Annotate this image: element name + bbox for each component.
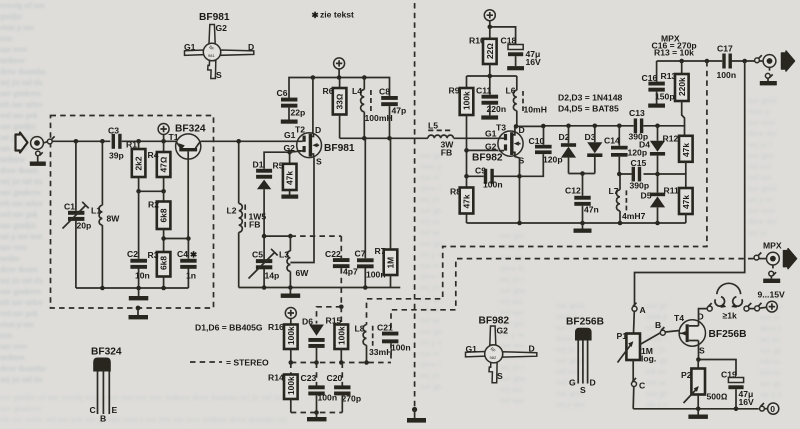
resistor R13 220k	[661, 61, 689, 126]
contact: MPX bottom contact	[754, 253, 767, 261]
capacitor C9 100n	[464, 166, 519, 190]
svg-text:47n: 47n	[584, 205, 599, 215]
svg-text:G1: G1	[284, 130, 296, 140]
ground: R5 ground	[281, 195, 298, 199]
svg-text:L2: L2	[227, 206, 237, 216]
svg-text:C15: C15	[631, 158, 647, 168]
wire: link R1-R4 bottoms	[136, 189, 166, 194]
wire: main line T1 to T2	[201, 140, 297, 142]
capacitor C18 47u electrolytic	[501, 36, 542, 68]
capacitor C20 270p	[327, 363, 362, 413]
svg-text:270p: 270p	[342, 394, 362, 404]
node: junction R6 plus on rail	[337, 75, 342, 80]
svg-text:C22: C22	[325, 249, 341, 259]
svg-text:100n: 100n	[717, 70, 737, 80]
wire: main input line	[43, 141, 176, 143]
wire: T3 drain junction to C10	[514, 124, 544, 145]
svg-text:A: A	[640, 305, 646, 315]
svg-text:FB: FB	[441, 148, 452, 158]
svg-text:R1: R1	[126, 140, 137, 150]
svg-text:C: C	[90, 405, 96, 415]
wire: mixer output line R6 L4 C8 to L5	[340, 136, 498, 141]
wire: T4 drain to headphone contact	[699, 303, 713, 326]
svg-text:47k: 47k	[285, 171, 295, 185]
svg-text:8W: 8W	[107, 214, 121, 224]
svg-text:log.: log.	[641, 354, 656, 364]
diode D6 varicap	[302, 317, 325, 363]
svg-text:C5: C5	[252, 250, 263, 260]
resistor R16 100k	[268, 322, 298, 363]
transistor package BF256B (bottom)	[566, 317, 604, 396]
capacitor C8 47p	[379, 87, 406, 139]
node: junction L4 on rail	[362, 75, 367, 80]
svg-text:150p: 150p	[655, 92, 675, 102]
svg-text:2k2: 2k2	[134, 156, 144, 170]
text: D1 D6 BB405G legend	[195, 323, 263, 333]
supply: plus circle T3 stage	[484, 10, 495, 27]
svg-text:100k: 100k	[286, 376, 296, 395]
svg-text:47k: 47k	[681, 195, 691, 209]
capacitor C16 150p	[642, 61, 675, 104]
svg-text:100n: 100n	[391, 343, 411, 353]
wire: T4 source to P2 C19	[696, 341, 736, 376]
svg-text:D: D	[248, 42, 254, 52]
capacitor C2 10n	[127, 191, 150, 288]
svg-text:C20: C20	[327, 373, 343, 383]
ground: IF rail ground	[574, 223, 592, 233]
svg-text:D: D	[590, 378, 596, 388]
svg-text:BF981: BF981	[324, 143, 355, 154]
svg-text:D2,D3 = 1N4148: D2,D3 = 1N4148	[558, 93, 622, 103]
svg-text:16V: 16V	[526, 57, 542, 67]
svg-text:L7: L7	[609, 186, 619, 196]
svg-text:C17: C17	[717, 44, 733, 54]
wire: MPX output line	[657, 59, 755, 64]
capacitor C21 100n (dashed)	[377, 323, 411, 363]
contact: C bottom contact	[632, 378, 646, 409]
svg-text:C2: C2	[127, 249, 138, 259]
svg-text:✱: ✱	[190, 250, 198, 260]
svg-text:L4: L4	[352, 86, 362, 96]
wire: D2 D3 bottom link to C12	[569, 171, 595, 176]
connector: 0V output circle	[768, 403, 779, 414]
svg-text:L3: L3	[279, 250, 289, 260]
svg-text:BF256B: BF256B	[709, 329, 747, 340]
connector: MPX bottom socket	[763, 241, 782, 266]
supply: plus circle stereo section	[285, 308, 296, 325]
inductor L4 100mH	[352, 78, 393, 139]
resistor R15 100k	[326, 307, 349, 363]
svg-text:R12: R12	[663, 134, 679, 144]
svg-text:0: 0	[770, 404, 775, 414]
resistor R2 6k8	[148, 191, 170, 238]
connector: MPX top output socket	[763, 55, 776, 68]
transistor T2 BF981 dual-gate MOSFET	[284, 125, 355, 167]
node: junction R1	[136, 139, 141, 144]
transistor T1 BF324	[169, 124, 206, 239]
svg-text:FB: FB	[249, 220, 260, 230]
headphone symbol with >=1k label	[715, 283, 742, 320]
wire: link R2-base T1	[161, 236, 190, 241]
node: junction T2 drain on rail	[311, 75, 316, 80]
transistor T3 BF982 dual-gate MOSFET	[472, 123, 525, 166]
wire: stereo dashed bus lower	[291, 410, 343, 415]
ground: shield box ground (dot and bar below box)	[129, 306, 149, 320]
wire: long vertical dashed separation line	[414, 3, 416, 409]
svg-text:C13: C13	[629, 108, 645, 118]
wire: audio ground rail	[633, 407, 759, 412]
capacitor C23 100n	[301, 363, 338, 413]
svg-text:R4: R4	[148, 150, 159, 160]
resistor R3 6k8	[148, 239, 171, 289]
potentiometer P1 1M log	[617, 331, 657, 381]
svg-text:R14: R14	[268, 373, 284, 383]
svg-text:C11: C11	[476, 86, 492, 96]
capacitor C12 47n	[565, 174, 599, 224]
svg-text:982: 982	[490, 355, 497, 360]
svg-text:220k: 220k	[677, 77, 687, 96]
capacitor C1 20p variable	[63, 141, 92, 288]
wire: left dashed shield box	[51, 116, 214, 309]
svg-text:D1,D6 = BB405G: D1,D6 = BB405G	[195, 323, 263, 333]
connector: antenna input socket	[31, 137, 44, 150]
diode D5	[641, 174, 666, 223]
svg-text:B: B	[100, 414, 106, 424]
transistor package BF324 (bottom left)	[90, 347, 122, 424]
text: D4 D5 BAT85 note	[558, 104, 619, 114]
svg-text:47k: 47k	[462, 194, 472, 208]
ground: C16 ground	[648, 104, 665, 108]
svg-text:R3: R3	[148, 250, 159, 260]
svg-text:G2: G2	[216, 23, 228, 33]
text: D2 D3 1N4148 note	[558, 93, 622, 103]
svg-text:C1: C1	[64, 202, 75, 212]
svg-text:100mH: 100mH	[365, 113, 393, 123]
resistor R8 47k	[450, 176, 473, 223]
inductor L1 8W	[91, 141, 120, 288]
node: junction R4 / supply	[161, 139, 166, 144]
wire: stereo dashed bus upper	[289, 360, 392, 365]
svg-text:R13 = 10k: R13 = 10k	[654, 48, 694, 58]
supply: plus circle above R4	[158, 124, 169, 142]
wire: T3 G2 R9 junction down to C9	[464, 148, 498, 176]
svg-text:R6: R6	[323, 86, 334, 96]
svg-text:R11: R11	[664, 186, 680, 196]
contact: MPX out contact	[755, 55, 764, 63]
inductor L5 3W ferrite bead	[428, 121, 454, 158]
svg-text:39p: 39p	[109, 151, 124, 161]
wire: R10 C18 top link	[488, 25, 516, 45]
wire: IF ground rail	[467, 221, 686, 226]
capacitor C6 22p	[277, 88, 306, 120]
ground: C18 ground	[507, 66, 524, 70]
svg-text:T2: T2	[295, 125, 305, 135]
svg-text:C21: C21	[377, 323, 393, 333]
wire: oscillator tank top line	[262, 234, 293, 239]
contact: B wiper contact	[640, 320, 680, 345]
contact: input contact on box edge	[47, 136, 54, 144]
wire: T2 G2 line to D1	[264, 150, 303, 169]
wire: left block ground rail	[76, 286, 188, 291]
wire: dashed branch to D6	[317, 305, 344, 324]
svg-text:981: 981	[208, 53, 215, 58]
text: zie tekst note	[312, 10, 355, 21]
capacitor C11 220n	[476, 76, 506, 115]
wire: headphone to supply contacts	[744, 303, 767, 311]
capacitor C15 390p	[630, 158, 650, 191]
output arrow bottom MPX	[784, 249, 797, 269]
svg-text:500Ω: 500Ω	[707, 392, 728, 402]
wire: T2 drain top rail	[289, 78, 390, 99]
svg-text:47Ω: 47Ω	[159, 156, 169, 172]
ground: connector ground with break contact	[30, 151, 46, 166]
inductor L6 10mH	[506, 76, 547, 126]
svg-text:T3: T3	[496, 123, 506, 133]
svg-text:D: D	[529, 344, 535, 354]
capacitor C5 14p variable	[249, 236, 280, 287]
ground: MPX bottom connector ground	[763, 265, 780, 283]
svg-text:E: E	[112, 405, 118, 415]
diode D2	[559, 126, 577, 174]
capacitor C7 100n	[355, 138, 386, 287]
wire: dashed stereo tap from tank to C22	[290, 235, 341, 237]
svg-text:D1: D1	[253, 160, 264, 170]
diode D3	[585, 126, 603, 174]
svg-text:1M: 1M	[386, 257, 396, 269]
svg-text:BF324: BF324	[175, 124, 206, 135]
svg-text:C: C	[639, 381, 645, 391]
svg-text:47p: 47p	[392, 106, 407, 116]
ground: stereo box ground	[307, 413, 327, 422]
wire: T3 source down to rail	[515, 155, 522, 223]
svg-text:22p: 22p	[291, 108, 306, 118]
node: junction L2 on main line	[236, 139, 241, 144]
input arrow	[16, 133, 28, 153]
svg-text:S: S	[316, 157, 322, 167]
svg-text:6k8: 6k8	[159, 256, 169, 270]
svg-text:100k: 100k	[336, 326, 346, 345]
svg-text:100k: 100k	[462, 91, 472, 110]
diode D4	[639, 126, 665, 174]
svg-text:R5: R5	[273, 161, 284, 171]
capacitor C10 120p	[520, 136, 563, 176]
wire: T2 source to L3 tap	[290, 157, 314, 262]
svg-text:T4: T4	[674, 313, 684, 323]
svg-text:C6: C6	[277, 88, 288, 98]
svg-text:6W: 6W	[296, 268, 310, 278]
svg-text:C4: C4	[177, 249, 188, 259]
inductor L2 1W5 ferrite bead	[227, 141, 267, 287]
svg-text:C7: C7	[355, 249, 366, 259]
svg-text:47k: 47k	[681, 143, 691, 157]
inductor L3 6W with tap	[279, 236, 309, 287]
svg-text:120p: 120p	[543, 155, 563, 165]
svg-text:L1: L1	[91, 206, 101, 216]
capacitor C22 4p7 (dashed stereo)	[325, 236, 358, 307]
output arrow top right	[782, 51, 795, 71]
capacitor C3 39p	[108, 126, 124, 161]
wire: T2 drain lead to rail	[312, 78, 314, 134]
svg-text:R9: R9	[449, 86, 460, 96]
text: dashed STEREO legend	[190, 358, 269, 368]
text: MPX C16 R13 note	[652, 34, 697, 58]
svg-text:390p: 390p	[630, 181, 650, 191]
svg-text:D4: D4	[639, 140, 650, 150]
node: junction L1	[100, 139, 105, 144]
resistor R11 47k	[664, 186, 693, 224]
svg-text:C10: C10	[529, 136, 545, 146]
node: junction C1	[74, 139, 79, 144]
resistor R7 1M	[375, 138, 398, 287]
wire: oscillator ground rail	[239, 285, 401, 290]
svg-text:S: S	[216, 70, 222, 80]
svg-text:B: B	[655, 320, 661, 330]
svg-text:100n: 100n	[483, 180, 503, 190]
svg-text:9...15V: 9...15V	[758, 290, 786, 300]
svg-text:G1: G1	[466, 344, 478, 354]
ground: oscillator rail ground	[281, 288, 301, 298]
ground: MPX top connector ground	[760, 67, 777, 85]
capacitor C19 47u electrolytic	[721, 370, 754, 409]
svg-text:G2: G2	[497, 326, 509, 336]
ground: dashed line bottom ground	[407, 407, 426, 423]
svg-text:S: S	[497, 371, 503, 381]
svg-text:33mH: 33mH	[369, 347, 392, 357]
diode D1 varicap	[253, 160, 273, 237]
supply: plus circle T2 rail	[334, 58, 345, 78]
svg-text:G1: G1	[184, 42, 196, 52]
svg-text:G: G	[569, 378, 576, 388]
svg-text:20p: 20p	[77, 221, 92, 231]
potentiometer P2 500ohm	[681, 360, 728, 409]
svg-text:S: S	[699, 346, 705, 356]
inductor L8 33mH	[355, 324, 393, 363]
capacitor C4 1n	[177, 239, 198, 289]
ground: left rail ground	[129, 288, 149, 300]
svg-text:BF256B: BF256B	[566, 317, 604, 328]
svg-text:G1: G1	[485, 129, 497, 139]
svg-text:L6: L6	[506, 86, 516, 96]
svg-text:10mH: 10mH	[524, 105, 547, 115]
resistor R14 100k	[268, 363, 298, 413]
svg-text:L5: L5	[428, 121, 438, 131]
svg-text:S: S	[580, 385, 586, 395]
svg-text:10n: 10n	[135, 271, 150, 281]
contact: A input to P1	[632, 303, 646, 334]
svg-text:C8: C8	[379, 87, 390, 97]
resistor R12 47k	[663, 134, 693, 175]
supply: 9...15V plus circle	[758, 290, 786, 313]
svg-text:R16: R16	[268, 322, 284, 332]
svg-text:4mH7: 4mH7	[622, 211, 646, 221]
resistor R5 47k	[273, 152, 297, 194]
transistor package BF982 (bottom)	[466, 316, 537, 383]
svg-text:BF324: BF324	[91, 347, 122, 358]
svg-text:C16: C16	[642, 73, 658, 83]
ground: C11 ground	[481, 115, 498, 119]
svg-text:33Ω: 33Ω	[335, 93, 345, 109]
wire: detector mid line with C15	[617, 172, 686, 188]
svg-text:BF981: BF981	[199, 12, 230, 23]
svg-text:100k: 100k	[286, 326, 296, 345]
svg-text:6k8: 6k8	[159, 208, 169, 222]
ground: C6 ground	[281, 120, 298, 124]
svg-text:16V: 16V	[739, 397, 755, 407]
contact: 0V contact	[760, 403, 768, 411]
capacitor C13 390p	[629, 108, 649, 142]
svg-text:D: D	[315, 125, 321, 135]
svg-text:C12: C12	[565, 186, 581, 196]
wire: dashed stereo route 2 (to C21 and MPX bottom)	[391, 259, 754, 332]
resistor R1 2k2	[126, 140, 145, 192]
svg-text:✱: ✱	[312, 10, 320, 20]
inductor L7 4mH7	[609, 174, 646, 223]
wire: dashed stereo route 1 (to L8)	[367, 61, 707, 325]
svg-text:D4,D5 = BAT85: D4,D5 = BAT85	[558, 104, 619, 114]
transistor T4 BF256B JFET	[674, 312, 746, 356]
transistor package BF981 (top)	[184, 12, 254, 80]
resistor R4 47ohm	[148, 141, 171, 191]
svg-text:MPX: MPX	[763, 241, 782, 251]
svg-text:C23: C23	[301, 373, 317, 383]
svg-text:≥1k: ≥1k	[723, 311, 737, 321]
svg-text:1n: 1n	[186, 271, 196, 281]
svg-text:4p7: 4p7	[343, 267, 358, 277]
svg-text:= STEREO: = STEREO	[226, 358, 269, 368]
wire: R9 R10 L6 link	[467, 74, 517, 79]
svg-text:14p: 14p	[265, 271, 280, 281]
capacitor C14 120p	[604, 126, 647, 174]
svg-text:BF982: BF982	[472, 153, 503, 164]
svg-text:R2: R2	[148, 200, 159, 210]
resistor R9 100k	[449, 76, 474, 150]
wire: audio feed from MPX line down to volume pot	[635, 61, 745, 306]
ground: audio rail ground	[688, 409, 708, 419]
wire: detector top line	[541, 124, 685, 136]
capacitor C17 100n	[717, 44, 737, 81]
resistor R6 33ohm	[323, 78, 347, 139]
resistor R10 22ohm	[469, 27, 497, 76]
svg-text:22Ω: 22Ω	[485, 43, 495, 59]
svg-text:zie tekst: zie tekst	[320, 10, 354, 20]
svg-text:C14: C14	[604, 136, 620, 146]
